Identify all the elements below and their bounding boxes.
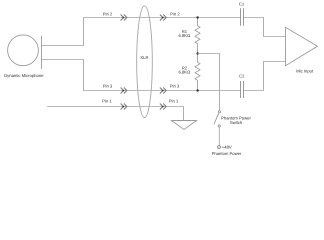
node pin3/R2 junction [196, 89, 198, 91]
capacitor C2 [241, 81, 244, 98]
chevron pin3 right [160, 88, 166, 94]
chevron pin1 right [160, 104, 166, 110]
svg-text:Dynamic Microphone: Dynamic Microphone [4, 73, 44, 78]
chevron pin2 right [160, 15, 166, 21]
terminal +48V [218, 146, 221, 149]
wire phantom feed to switch [198, 54, 220, 111]
svg-text:Pin 3: Pin 3 [170, 84, 180, 89]
svg-text:Switch: Switch [230, 120, 243, 125]
op-amp U1 mic preamp [286, 27, 318, 65]
wire pin1 shield [47, 107, 184, 121]
chevron pin1 left [121, 104, 127, 110]
ground [172, 121, 197, 130]
svg-text:+48V: +48V [222, 144, 232, 149]
svg-text:Mic Input: Mic Input [296, 69, 314, 74]
svg-text:6.8KΩ: 6.8KΩ [178, 70, 190, 75]
chevron pin2 left [121, 15, 127, 21]
wire C1 to amp [244, 18, 286, 37]
svg-text:Pin 1: Pin 1 [102, 99, 112, 104]
svg-text:Pin 3: Pin 3 [103, 84, 113, 89]
switch S1 phantom power [214, 111, 221, 127]
microphone MIC1 body [8, 35, 39, 66]
wire C2 to amp [244, 62, 286, 91]
node pin2/R1 junction [196, 16, 198, 18]
resistor R1 [195, 18, 200, 54]
svg-text:XLR: XLR [140, 55, 148, 60]
svg-text:Pin 2: Pin 2 [103, 12, 113, 17]
resistor R2 [195, 54, 200, 91]
microphone MIC1 diaphragm bar [41, 36, 43, 69]
chevron pin3 left [121, 88, 127, 94]
wire mic cold to pin3 net [42, 60, 241, 91]
wire mic hot to pin2 net [42, 18, 241, 46]
wire switch to +48V terminal [218, 127, 220, 146]
svg-text:C2: C2 [239, 73, 245, 78]
svg-text:Pin 1: Pin 1 [169, 99, 179, 104]
node R1/R2 midpoint junction [196, 52, 198, 54]
svg-text:Phantom Power: Phantom Power [212, 151, 242, 156]
svg-text:Pin 2: Pin 2 [170, 12, 180, 17]
connector XLR shell [137, 6, 153, 118]
svg-text:6.8KΩ: 6.8KΩ [178, 33, 190, 38]
svg-text:C1: C1 [239, 2, 245, 7]
capacitor C1 [241, 8, 244, 26]
